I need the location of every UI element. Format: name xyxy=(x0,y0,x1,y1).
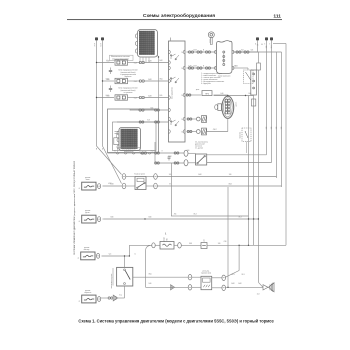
svg-text:Б: Б xyxy=(114,151,115,153)
svg-text:В: В xyxy=(78,257,80,258)
svg-text:З-В: З-В xyxy=(281,127,283,129)
svg-text:З-В: З-В xyxy=(276,127,278,129)
svg-text:З-Ч: З-Ч xyxy=(119,295,121,297)
svg-text:О-В: О-В xyxy=(106,78,109,80)
svg-text:В-В: В-В xyxy=(149,217,152,219)
svg-text:10: 10 xyxy=(181,95,183,97)
svg-text:В: В xyxy=(203,66,204,68)
svg-text:В-Ж: В-Ж xyxy=(194,50,198,52)
svg-text:В-Б: В-Б xyxy=(249,93,252,95)
svg-text:В: В xyxy=(79,188,81,189)
svg-text:Ч-З: Ч-З xyxy=(109,254,112,256)
svg-text:Ж-З: Ж-З xyxy=(239,217,242,219)
svg-text:заслонки: заслонки xyxy=(195,146,202,148)
svg-text:переключ.: переключ. xyxy=(240,131,242,139)
svg-text:СИСТЕМА УПРАВЛЕНИЯ ДВИГАТЕЛЕМ: СИСТЕМА УПРАВЛЕНИЯ ДВИГАТЕЛЕМ (модели с … xyxy=(73,160,76,255)
svg-text:двигателем: двигателем xyxy=(124,151,134,153)
svg-text:3 - главное реле системы: 3 - главное реле системы xyxy=(201,77,221,79)
svg-text:В-Ж: В-Ж xyxy=(148,95,152,97)
svg-text:З-В: З-В xyxy=(229,174,232,176)
svg-text:2 - замок зажигания: 2 - замок зажигания xyxy=(201,75,216,77)
svg-text:Б-К: Б-К xyxy=(251,50,254,52)
svg-text:4 - датчик положения: 4 - датчик положения xyxy=(201,79,217,81)
svg-text:Ч-В: Ч-В xyxy=(149,283,152,285)
svg-text:10 - выключатель: 10 - выключатель xyxy=(195,142,208,144)
svg-text:В-Ж: В-Ж xyxy=(198,174,202,176)
svg-text:З-В: З-В xyxy=(266,46,268,48)
svg-text:Ж-З: Ж-З xyxy=(242,274,245,276)
svg-text:З-Ч: З-Ч xyxy=(271,46,273,48)
svg-text:111: 111 xyxy=(273,14,281,20)
svg-text:Главное реле: Главное реле xyxy=(134,173,145,175)
svg-text:блок управления: блок управления xyxy=(171,87,173,99)
svg-text:10: 10 xyxy=(181,68,183,70)
svg-text:В-Ж: В-Ж xyxy=(231,283,235,285)
svg-text:Л: Л xyxy=(161,151,162,153)
svg-text:не указано: не указано xyxy=(124,92,133,94)
svg-text:Ж-З: Ж-З xyxy=(232,274,235,276)
svg-text:ПРБ: ПРБ xyxy=(205,93,210,95)
svg-text:В-Б: В-Б xyxy=(151,108,154,110)
svg-text:З-В: З-В xyxy=(218,243,221,245)
svg-text:торможением: торможением xyxy=(201,273,211,275)
svg-text:В-Ж: В-Ж xyxy=(168,156,172,158)
svg-text:Л-В: Л-В xyxy=(187,150,190,152)
svg-text:10: 10 xyxy=(181,131,183,133)
svg-text:Б-В: Б-В xyxy=(221,93,224,95)
svg-text:Л-В: Л-В xyxy=(224,241,227,243)
svg-text:В-Ж: В-Ж xyxy=(194,66,198,68)
svg-text:темп.: темп. xyxy=(86,179,91,181)
svg-text:З-Ч: З-Ч xyxy=(257,293,260,295)
svg-text:В-В: В-В xyxy=(111,217,114,219)
svg-text:В: В xyxy=(79,221,81,222)
svg-text:15: 15 xyxy=(257,45,259,47)
svg-text:11 - датчик: 11 - датчик xyxy=(195,148,203,150)
svg-text:впрыска (блок реле): впрыска (блок реле) xyxy=(112,58,129,60)
svg-text:В-Б: В-Б xyxy=(160,95,163,97)
svg-text:З-В: З-В xyxy=(147,120,149,122)
svg-text:И-В: И-В xyxy=(189,243,192,245)
svg-text:рез: рез xyxy=(203,239,205,242)
svg-text:выключатель горного: выключатель горного xyxy=(111,273,113,288)
svg-text:Схема 1. Система управления дв: Схема 1. Система управления двигателем (… xyxy=(78,318,273,323)
svg-text:реле упр.: реле упр. xyxy=(203,270,211,272)
svg-text:В: В xyxy=(79,301,81,302)
svg-text:Б-Ж: Б-Ж xyxy=(188,66,192,68)
svg-text:Ж-Б: Ж-Б xyxy=(148,274,151,276)
svg-text:Ч: Ч xyxy=(102,149,103,151)
svg-text:З-Б: З-Б xyxy=(169,174,172,176)
svg-text:И-Ж: И-Ж xyxy=(108,183,112,185)
svg-text:З: З xyxy=(269,43,270,45)
svg-text:ХХ: ХХ xyxy=(167,238,169,240)
svg-text:Л: Л xyxy=(215,129,216,131)
svg-text:В-Ж: В-Ж xyxy=(148,60,152,62)
svg-text:скорости: скорости xyxy=(84,292,91,294)
svg-text:Ч: Ч xyxy=(100,46,101,48)
svg-text:В-Ж: В-Ж xyxy=(148,79,152,81)
svg-text:В-Ж: В-Ж xyxy=(159,60,163,62)
svg-text:Ж-Б: Ж-Б xyxy=(159,78,162,80)
svg-text:Ж-В: Ж-В xyxy=(228,184,231,186)
svg-text:К: К xyxy=(94,46,95,48)
svg-text:10: 10 xyxy=(181,52,183,54)
svg-text:10: 10 xyxy=(181,119,183,121)
svg-text:З-В: З-В xyxy=(271,127,273,129)
svg-text:кислор.: кислор. xyxy=(84,249,90,251)
svg-text:5 - распределитель зажигания: 5 - распределитель зажигания xyxy=(201,81,224,83)
svg-text:диагн.: диагн. xyxy=(236,101,238,106)
svg-text:З-В: З-В xyxy=(266,127,268,129)
svg-text:1 - аккумуляторная батарея: 1 - аккумуляторная батарея xyxy=(201,73,222,75)
svg-text:Схемы электрооборудования: Схемы электрооборудования xyxy=(143,12,215,19)
svg-text:Л-Б: Л-Б xyxy=(174,214,177,216)
svg-text:клапан: клапан xyxy=(164,237,166,242)
svg-text:впрыска: впрыска xyxy=(125,76,132,78)
svg-text:реле: реле xyxy=(196,89,199,91)
svg-text:детон.: детон. xyxy=(85,212,90,214)
svg-text:В-Ж: В-Ж xyxy=(238,283,242,285)
svg-text:Ж-З: Ж-З xyxy=(194,214,197,216)
svg-text:Л-Ч: Л-Ч xyxy=(151,151,154,153)
svg-text:В: В xyxy=(203,50,204,52)
svg-text:Ч: Ч xyxy=(134,254,135,256)
svg-text:З: З xyxy=(264,43,265,45)
svg-text:Б-К: Б-К xyxy=(241,50,243,52)
